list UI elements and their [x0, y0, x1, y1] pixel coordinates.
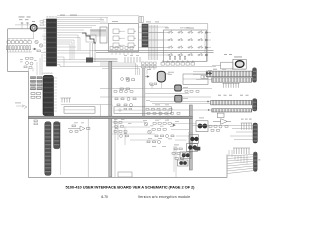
wires to J6 [192, 126, 253, 140]
volume box VR1 [221, 62, 233, 69]
keypad switches row3 [167, 46, 203, 49]
bus pair horizontal A [95, 50, 214, 52]
resistor network RN1 pull-ups [90, 29, 106, 36]
resistor ticks RN2 [61, 98, 72, 103]
gate U2F [128, 43, 136, 48]
wire bottom cluster drops [174, 146, 183, 177]
labels RN4 [241, 118, 252, 121]
capacitor pair under buzzer [150, 83, 157, 85]
diode D2 [173, 124, 175, 126]
diode D3 [145, 76, 149, 78]
gate U2E [128, 36, 136, 41]
bus vertical V2 [189, 105, 192, 170]
resistor R8 [37, 50, 40, 52]
transistor Q2 [39, 44, 42, 47]
connector J5 [253, 99, 257, 111]
optocoupler DS2 [189, 135, 199, 143]
bottom cluster resistors [172, 148, 186, 159]
wire gates to keypad links [121, 27, 164, 48]
connector J4 [253, 68, 257, 82]
connector J3 strip [54, 122, 61, 175]
wire IC1 top feeds [43, 16, 139, 24]
wire stubs into gate box top [101, 18, 107, 24]
resistor R11 [185, 91, 199, 93]
capacitor pair C20 C21 [31, 93, 41, 99]
parts row y142 [147, 141, 161, 144]
wire main outline border [8, 29, 227, 178]
wire speaker feed [208, 66, 221, 71]
label smudges left mid [20, 59, 37, 62]
wire buzzer stub [152, 83, 161, 89]
svg-text:U1 82C55 I/O: U1 82C55 I/O [46, 17, 58, 19]
cable W5 ribbon [212, 109, 252, 112]
wire cap link rail [15, 24, 31, 26]
capacitor C22 cylinder [175, 85, 182, 91]
bus pair horizontal B [93, 59, 118, 61]
wire long rail y66.5 [60, 66, 216, 68]
ribbon cable W6 [114, 107, 172, 114]
small parts below U5 [209, 125, 228, 131]
capacitor C23 cylinder [175, 95, 182, 102]
bypass capacitor bank C12-C19 [31, 77, 43, 90]
bus vertical V1 [109, 62, 112, 178]
label R1 [40, 21, 44, 26]
bus vertical V3 keypad drop [142, 68, 145, 117]
wire w104 [61, 105, 112, 107]
connector J7 [254, 152, 258, 171]
resistor row R2-R7 [7, 41, 31, 44]
transistor Q1 [35, 40, 38, 43]
wire top rail [8, 28, 47, 30]
keypad switches row1 [167, 31, 203, 34]
op-amp U5 [213, 113, 231, 124]
capacitor C2 [26, 23, 28, 26]
wire keypad outer boundary [148, 24, 208, 62]
relay box K1 [183, 74, 212, 85]
keypad matrix box S1 [164, 30, 207, 62]
bus staircase from U1 [82, 33, 96, 43]
buzzer BZ1 [157, 71, 169, 82]
node arrow label left margin [16, 105, 24, 108]
parts row y113 [147, 112, 180, 115]
capacitor cluster C31 [24, 58, 33, 69]
vertical wires above fan [229, 150, 247, 164]
bottom small box component [118, 172, 132, 177]
capacitor row C3-C11 [7, 46, 31, 50]
wire fan to J7 [227, 155, 254, 174]
wires cables feed left extension [148, 102, 195, 111]
wire IC2 bottom cap [48, 114, 55, 117]
U4 right pin stubs [54, 78, 58, 111]
resistor ladder RN5 [233, 148, 250, 154]
resistor R9 [34, 120, 37, 125]
wires into W2 from left [193, 72, 212, 80]
small parts row y99 [115, 98, 136, 101]
resistor tick row mid [125, 57, 140, 63]
speaker LS1 [233, 59, 246, 69]
wire top-left interconnect [7, 25, 46, 52]
wires center to right [160, 110, 196, 140]
gate U2A [113, 29, 121, 34]
resistor R10 [120, 88, 129, 90]
keypad column resistors [169, 56, 186, 60]
connector J6 [253, 123, 257, 143]
wires into U1 left [41, 36, 47, 53]
resistor ticks RN3 [223, 83, 240, 88]
cable W2 ribbon [206, 71, 252, 77]
diode D1 [33, 48, 37, 50]
gate U2C [113, 43, 121, 48]
connector J2 strip [45, 122, 51, 176]
buffer U3 [100, 27, 107, 43]
resistor ladder RN4 [241, 123, 252, 130]
ribbon cable W1 [64, 105, 101, 117]
keypad bus wires vertical [149, 25, 158, 60]
bus thick horizontal [28, 116, 192, 118]
diode column right of keypad [206, 32, 209, 57]
connector stub top [139, 17, 144, 23]
wires center cluster [112, 122, 158, 145]
keypad switches row4 [167, 53, 203, 56]
parts row y136 [155, 135, 174, 138]
svg-text:5100-410 USER INTERFACE BOARD: 5100-410 USER INTERFACE BOARD VER A SCHE… [66, 184, 196, 189]
gate U2D [128, 29, 136, 34]
resistor row center [153, 123, 171, 125]
center cluster transistors Q4 Q5 [144, 122, 151, 134]
capacitor C1 [21, 23, 23, 26]
capacitor grid left bottom of keypad [142, 62, 157, 68]
IC U7 small [195, 147, 201, 151]
resistor array row bottom of keypad [161, 61, 194, 65]
svg-text:Version w/o encryption module: Version w/o encryption module [138, 195, 190, 199]
connector J1 [142, 24, 148, 47]
wire drop to border B [114, 119, 116, 178]
svg-text:U4 DISPLAY: U4 DISPLAY [43, 72, 54, 75]
wire stubs left mid [28, 54, 42, 75]
keypad right edge wire [205, 33, 211, 54]
optocoupler DS1 [196, 121, 208, 132]
small parts row y111 center [146, 109, 172, 111]
vertical drops from bus [90, 43, 95, 62]
junction node [86, 35, 96, 42]
wire audio rails [100, 89, 212, 98]
cable W3 ribbon [212, 78, 252, 82]
labels above W4 [218, 94, 249, 97]
wire gate box feeders vertical [112, 52, 132, 56]
svg-text:6-70: 6-70 [101, 195, 108, 199]
IC U1 [46, 17, 58, 67]
keypad row wires [148, 27, 168, 55]
transistor Q3 [126, 78, 135, 82]
U1 right lower fan wires [57, 35, 89, 67]
U1 right fan wires to logic [57, 18, 109, 67]
resistor row center2 [152, 129, 166, 131]
gate array box U2 [109, 24, 139, 52]
crystal Y1 [30, 24, 37, 31]
op-amp U6 [68, 125, 90, 133]
small parts band x113-138 y77-95 [114, 78, 133, 93]
gate U2B [113, 36, 121, 41]
cable W4 ribbon [211, 100, 252, 105]
wire drop to border A [87, 119, 89, 178]
label smudges top band [60, 15, 194, 29]
label smudges center band [143, 69, 204, 156]
U1 left pin stubs [44, 22, 47, 61]
capacitor row under gates [110, 47, 133, 50]
optocoupler DS4 [180, 152, 191, 159]
node VCC arrow [24, 106, 27, 109]
wire bend trio [100, 63, 140, 75]
arrow nodes into W2 [207, 72, 213, 74]
optocoupler DS5 [178, 160, 189, 166]
parts column x113-136 [114, 122, 129, 138]
junction blob [86, 58, 93, 63]
IC U4 [43, 72, 54, 115]
labels right top [213, 54, 246, 70]
keypad switches row2 [167, 38, 203, 41]
wires into W4 [193, 101, 212, 111]
wire rail stubs [147, 67, 154, 74]
optocoupler DS3 [187, 144, 198, 152]
small parts row y105 [117, 104, 133, 107]
label cluster above U1 [19, 17, 36, 22]
label J7 [258, 159, 260, 162]
